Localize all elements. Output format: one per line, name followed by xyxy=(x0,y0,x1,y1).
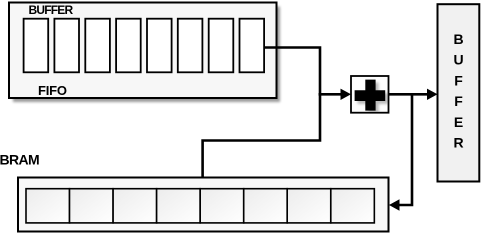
plus symbol (adder) xyxy=(355,80,386,111)
wire from FIFO output to BRAM (with T junction to adder) xyxy=(203,48,320,179)
FIFO buffer block shadow xyxy=(13,7,280,103)
label FIFO (bottom of FIFO block) xyxy=(38,83,67,98)
svg-text:U: U xyxy=(453,52,463,68)
BRAM cell row xyxy=(26,189,374,223)
FIFO cell 4 xyxy=(116,19,141,73)
svg-text:F: F xyxy=(454,93,463,109)
FIFO cell 7 xyxy=(209,19,234,73)
svg-text:BRAM: BRAM xyxy=(0,152,39,168)
svg-text:FIFO: FIFO xyxy=(38,83,67,98)
BRAM block xyxy=(18,178,389,232)
svg-text:BUFFER: BUFFER xyxy=(29,3,74,17)
svg-text:B: B xyxy=(453,31,463,47)
wire branch into adder input xyxy=(319,93,343,96)
FIFO cell 8 xyxy=(240,19,265,73)
label BUFFER (vertical, output buffer) xyxy=(453,31,463,151)
arrowhead into BRAM right side xyxy=(389,199,400,210)
FIFO cell 3 xyxy=(85,19,110,73)
arrowhead into adder xyxy=(341,89,352,100)
FIFO cell 5 xyxy=(147,19,172,73)
wire from adder output junction down to BRAM xyxy=(399,94,413,205)
FIFO cell 6 xyxy=(178,19,203,73)
svg-text:E: E xyxy=(454,114,463,130)
FIFO buffer block xyxy=(9,3,277,99)
wire from adder output to output buffer xyxy=(389,93,429,96)
label BUFFER (top of FIFO block) xyxy=(29,3,74,17)
FIFO cell 1 xyxy=(24,19,49,73)
FIFO cell 2 xyxy=(54,19,79,73)
output buffer block xyxy=(438,4,480,181)
plus symbol shadow xyxy=(358,83,389,114)
svg-text:R: R xyxy=(453,135,463,151)
adder block U2 xyxy=(351,76,389,113)
label BRAM xyxy=(0,152,39,168)
arrowhead into output buffer xyxy=(427,89,438,100)
svg-text:F: F xyxy=(454,72,463,88)
